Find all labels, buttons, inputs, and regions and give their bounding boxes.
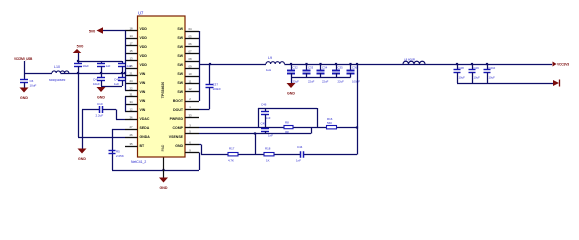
svg-text:17: 17 [129, 41, 133, 45]
svg-text:04: 04 [188, 27, 192, 31]
svg-text:VIN: VIN [140, 72, 146, 76]
svg-text:SW: SW [177, 27, 183, 31]
svg-text:2.2uF: 2.2uF [96, 114, 104, 118]
svg-text:C45: C45 [261, 122, 267, 126]
svg-text:10uF: 10uF [474, 76, 481, 80]
svg-text:C36: C36 [352, 66, 358, 70]
svg-text:1uF: 1uF [114, 82, 119, 86]
svg-text:BOOT: BOOT [173, 99, 184, 103]
svg-text:18: 18 [129, 26, 133, 30]
svg-text:34: 34 [129, 100, 133, 104]
svg-text:GND: GND [160, 186, 168, 190]
svg-text:10: 10 [188, 72, 192, 76]
svg-text:09: 09 [188, 64, 192, 68]
svg-text:SW: SW [177, 81, 183, 85]
svg-text:1uF: 1uF [106, 64, 111, 68]
svg-text:SW: SW [177, 63, 183, 67]
svg-text:C210: C210 [489, 66, 496, 70]
svg-text:22uF: 22uF [322, 79, 329, 83]
svg-text:1nF: 1nF [296, 159, 301, 163]
svg-text:DOUT: DOUT [173, 108, 184, 112]
svg-text:VDD: VDD [140, 45, 148, 49]
svg-text:C29: C29 [474, 66, 480, 70]
svg-text:C6: C6 [30, 79, 34, 83]
svg-text:1uH: 1uH [266, 68, 271, 72]
svg-text:R8: R8 [285, 121, 289, 125]
svg-text:100nF: 100nF [213, 87, 222, 91]
svg-text:R17: R17 [229, 147, 235, 151]
svg-text:12: 12 [129, 107, 133, 111]
svg-text:24: 24 [129, 79, 133, 83]
svg-text:TPS54620: TPS54620 [161, 82, 165, 99]
svg-text:5V0: 5V0 [77, 45, 84, 49]
svg-text:GND: GND [175, 144, 183, 148]
svg-text:GND: GND [20, 96, 28, 100]
svg-text:35: 35 [129, 142, 133, 146]
svg-text:22uF: 22uF [293, 79, 300, 83]
svg-text:10uF: 10uF [489, 76, 496, 80]
svg-text:SEDA: SEDA [140, 126, 150, 130]
svg-text:13: 13 [129, 56, 133, 60]
svg-text:U7: U7 [138, 11, 144, 16]
svg-text:SW: SW [177, 72, 183, 76]
svg-text:56K: 56K [327, 121, 332, 125]
svg-text:PWRGD: PWRGD [170, 117, 184, 121]
svg-text:14: 14 [129, 34, 133, 38]
svg-text:GND: GND [287, 92, 295, 96]
svg-text:600R@100MHZ: 600R@100MHZ [49, 79, 66, 82]
svg-text:08: 08 [188, 57, 192, 61]
svg-text:VCC5V0_USB: VCC5V0_USB [14, 57, 33, 61]
svg-text:36: 36 [129, 115, 133, 119]
svg-text:100nF: 100nF [352, 79, 360, 83]
svg-text:21: 21 [129, 71, 133, 75]
svg-text:1nF: 1nF [268, 134, 273, 138]
svg-text:10uF: 10uF [93, 82, 100, 86]
svg-text:SW: SW [177, 90, 183, 94]
svg-text:C44: C44 [297, 145, 303, 149]
svg-text:31: 31 [129, 92, 133, 96]
svg-text:VIN: VIN [140, 81, 146, 85]
svg-text:VDAC: VDAC [140, 117, 150, 121]
svg-text:16: 16 [129, 64, 133, 68]
svg-text:10uF: 10uF [83, 64, 90, 68]
svg-text:VSENSE: VSENSE [169, 135, 184, 139]
svg-text:4.7K: 4.7K [228, 159, 234, 163]
svg-text:15: 15 [129, 49, 133, 53]
svg-text:06: 06 [188, 42, 192, 46]
svg-text:C28: C28 [459, 66, 465, 70]
svg-text:VCC3V3: VCC3V3 [557, 63, 569, 67]
svg-text:VDD: VDD [140, 36, 148, 40]
svg-text:PAD: PAD [161, 144, 165, 151]
svg-text:C34: C34 [322, 66, 328, 70]
svg-text:5V0: 5V0 [89, 29, 95, 33]
svg-text:07: 07 [188, 49, 192, 53]
svg-text:C40: C40 [114, 77, 120, 81]
svg-text:VDD: VDD [140, 63, 148, 67]
svg-text:NetC41_2: NetC41_2 [131, 160, 146, 164]
svg-text:26: 26 [129, 133, 133, 137]
svg-text:GND: GND [78, 157, 86, 161]
svg-text:VIN: VIN [140, 99, 146, 103]
svg-text:VDD: VDD [140, 54, 148, 58]
svg-text:R5: R5 [116, 150, 120, 154]
svg-text:22: 22 [129, 86, 133, 90]
svg-text:SW: SW [177, 45, 183, 49]
svg-text:05: 05 [188, 34, 192, 38]
svg-text:GNDA: GNDA [140, 135, 151, 139]
svg-text:1nF: 1nF [266, 116, 271, 120]
svg-text:10uF: 10uF [459, 76, 466, 80]
svg-text:VIN: VIN [140, 90, 146, 94]
svg-text:1K: 1K [266, 159, 270, 163]
svg-text:VDD: VDD [140, 27, 148, 31]
svg-text:2.05K: 2.05K [116, 154, 124, 158]
svg-text:22uF: 22uF [308, 79, 315, 83]
svg-text:SW: SW [177, 36, 183, 40]
svg-text:L10: L10 [54, 65, 60, 69]
svg-text:C32: C32 [293, 66, 299, 70]
svg-text:C41: C41 [93, 77, 99, 81]
svg-text:22uF: 22uF [338, 79, 345, 83]
svg-text:C33: C33 [308, 66, 314, 70]
svg-text:C10: C10 [97, 102, 103, 106]
svg-text:27: 27 [129, 125, 133, 129]
svg-text:C35: C35 [338, 66, 344, 70]
svg-text:33: 33 [188, 113, 192, 117]
svg-text:GND: GND [97, 96, 105, 100]
svg-text:11: 11 [189, 79, 192, 83]
svg-text:10uF: 10uF [30, 84, 37, 88]
svg-text:L9: L9 [268, 56, 272, 60]
svg-text:SW: SW [177, 54, 183, 58]
svg-text:R18: R18 [265, 147, 271, 151]
svg-text:VIN: VIN [140, 108, 146, 112]
svg-text:C37: C37 [213, 83, 219, 87]
svg-text:12: 12 [188, 87, 192, 91]
svg-text:COMP: COMP [173, 126, 184, 130]
svg-text:C46: C46 [261, 102, 267, 106]
